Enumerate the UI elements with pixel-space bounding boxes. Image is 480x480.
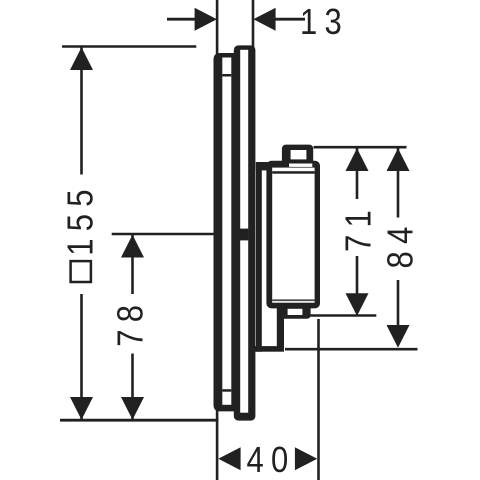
dim 84: label xyxy=(380,220,421,269)
dim 155: label xyxy=(60,182,101,255)
svg-text:71: 71 xyxy=(338,203,379,252)
dim 40: arrow right xyxy=(295,447,317,470)
dim 155: arrow up xyxy=(70,47,93,70)
dim 84: arrow down xyxy=(387,325,410,348)
grip inner bottom line xyxy=(272,299,314,301)
dim 40: left extension line xyxy=(216,404,219,480)
dim 71: arrow down xyxy=(346,293,369,316)
dim 84: line upper segment xyxy=(397,148,400,218)
dim 40: label xyxy=(247,439,296,480)
grip inner top line xyxy=(272,171,314,174)
dim 71: line upper segment xyxy=(356,148,359,199)
select button top knob xyxy=(282,145,313,167)
dim 13: right leader xyxy=(276,18,306,21)
dim 78: line upper segment xyxy=(131,235,134,294)
dim 155: top extension line xyxy=(62,45,196,48)
dim 155: arrow down xyxy=(70,397,93,420)
escutcheon interior slot xyxy=(222,58,231,405)
svg-text:155: 155 xyxy=(60,182,101,255)
dim 78: arrow up xyxy=(121,235,144,258)
dim 78: label xyxy=(110,298,151,347)
bottom knob hole xyxy=(288,309,303,315)
svg-text:13: 13 xyxy=(300,2,349,43)
escutcheon tick top xyxy=(222,74,231,77)
escutcheon plate (left, side view) xyxy=(214,53,241,411)
escutcheon tick bottom xyxy=(222,389,231,392)
sleeve bar xyxy=(256,162,262,352)
svg-text:40: 40 xyxy=(247,439,296,480)
dim 13: right arrow xyxy=(253,8,275,31)
svg-text:78: 78 xyxy=(110,298,151,347)
dim 71: bottom extension line xyxy=(309,314,377,317)
bottom knob xyxy=(280,303,311,319)
handle grip body xyxy=(266,161,320,309)
valve crossbar xyxy=(240,229,248,241)
dim 13: right extension line xyxy=(252,0,255,48)
dim 13: left extension line xyxy=(216,0,219,63)
housing interior xyxy=(240,50,248,413)
dim 71: label xyxy=(338,203,379,252)
dim 40: arrow left xyxy=(218,447,240,470)
knob base sliver xyxy=(289,164,312,167)
dim 13: left arrow xyxy=(195,8,217,31)
dim 78: top extension line xyxy=(112,233,215,236)
basic set housing (main plate) xyxy=(234,45,256,420)
dim 71: arrow up xyxy=(346,148,369,171)
right top extension line xyxy=(314,146,407,149)
dim 84: arrow up xyxy=(387,148,410,171)
sleeve top connector xyxy=(256,162,268,170)
dim 78: line lower segment xyxy=(131,354,134,420)
dim 155: square symbol xyxy=(71,261,91,282)
dim 84: line lower segment xyxy=(397,280,400,326)
dim 84: bottom extension line xyxy=(285,348,418,351)
dim 155: line upper segment xyxy=(80,47,83,174)
dim 71: line lower segment xyxy=(356,256,359,295)
svg-text:84: 84 xyxy=(380,220,421,269)
grip interior xyxy=(272,168,314,303)
dim 40: right extension line xyxy=(317,319,320,480)
knob hole xyxy=(291,150,307,159)
shared bottom extension line xyxy=(60,419,218,422)
dim 13: left leader xyxy=(167,18,197,21)
dim 78: arrow down xyxy=(121,397,144,420)
lever right wall xyxy=(277,306,284,352)
lever bottom edge xyxy=(254,346,284,352)
dim 13: label xyxy=(300,2,349,43)
dim 155: line lower segment xyxy=(80,294,83,420)
